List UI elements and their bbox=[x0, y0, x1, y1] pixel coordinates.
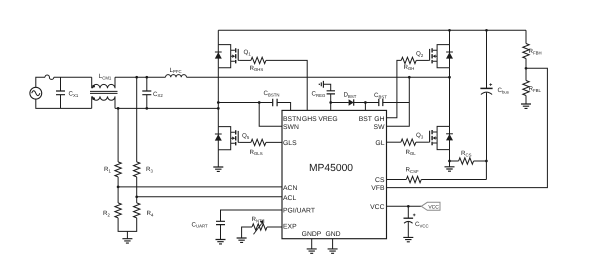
wire L_PFC to fast-leg switch node bbox=[187, 76, 450, 78]
svg-text:Cbus: Cbus bbox=[498, 87, 509, 94]
diode D_BST bbox=[331, 92, 366, 106]
ground Q3 source bbox=[445, 167, 455, 171]
svg-text:RNTC: RNTC bbox=[252, 216, 265, 223]
svg-text:Q1: Q1 bbox=[244, 49, 252, 56]
AC source V1 bbox=[30, 87, 42, 99]
svg-text:BST: BST bbox=[359, 116, 372, 123]
capacitor C_REG bbox=[312, 84, 336, 98]
ground GND bbox=[328, 249, 338, 253]
capacitor C_UART bbox=[192, 221, 226, 239]
svg-text:RCS: RCS bbox=[461, 150, 472, 157]
wire BST drop bbox=[364, 103, 366, 111]
node: N line to slow leg bbox=[217, 107, 220, 110]
svg-text:GH: GH bbox=[374, 116, 384, 123]
resistor R_GH bbox=[401, 57, 416, 71]
svg-text:Q2: Q2 bbox=[416, 51, 424, 58]
wire R_GHS to GHS pin bbox=[266, 60, 307, 110]
svg-text:ACN: ACN bbox=[283, 185, 297, 192]
wire Q3 source node bbox=[449, 150, 451, 167]
svg-text:VCC: VCC bbox=[370, 204, 384, 211]
ground C_UART bbox=[216, 240, 226, 244]
wire R_GL to Q3 gate bbox=[416, 141, 428, 143]
node: R3 divider tap on L line bbox=[135, 76, 138, 79]
ground divider bbox=[122, 239, 132, 243]
svg-text:SW: SW bbox=[374, 124, 386, 131]
fuse F1 bbox=[45, 75, 54, 79]
node BSTN rail tap bbox=[217, 101, 220, 104]
wire VCC pin to tag bbox=[387, 205, 422, 207]
svg-text:GNDP: GNDP bbox=[302, 231, 322, 238]
ground C_VCC bbox=[403, 237, 413, 241]
wire GND to ground bbox=[332, 239, 334, 249]
wire Q2 source to Q3 drain bbox=[449, 68, 451, 127]
wire divider bottoms joined bbox=[118, 218, 137, 239]
svg-text:MP45000: MP45000 bbox=[309, 163, 353, 174]
node C_VCC tap bbox=[407, 205, 410, 208]
svg-text:VREG: VREG bbox=[318, 116, 337, 123]
node BST tap bbox=[364, 101, 367, 104]
svg-text:RFBH: RFBH bbox=[529, 48, 542, 55]
common-mode choke L_CM1 bbox=[90, 73, 118, 108]
svg-text:CVCC: CVCC bbox=[415, 221, 429, 228]
node: Q2/Q3 midpoint bbox=[448, 76, 451, 79]
capacitor C_bus bbox=[480, 30, 509, 179]
resistor R_CS bbox=[450, 150, 487, 164]
wire VFB sense bbox=[387, 68, 548, 187]
svg-text:CUART: CUART bbox=[192, 221, 208, 228]
wire R_GLS to GLS pin bbox=[266, 141, 282, 143]
svg-text:PGI/UART: PGI/UART bbox=[283, 208, 315, 215]
transistor Q3 bbox=[416, 126, 453, 149]
svg-text:DBST: DBST bbox=[344, 92, 357, 99]
wire R_FBL to ground bbox=[525, 96, 527, 105]
node: C_X2 bottom bbox=[145, 107, 148, 110]
transistor Q1 bbox=[215, 45, 252, 68]
wire bottom N line choke to slow leg bbox=[115, 107, 218, 109]
capacitor C_VCC bbox=[404, 206, 429, 237]
resistor R_GHS bbox=[240, 57, 266, 72]
svg-text:CBST: CBST bbox=[374, 92, 387, 99]
wire Q5 source to ground bbox=[217, 150, 219, 167]
wire R3 to R4 bbox=[136, 177, 138, 203]
wire SWN pin riser bbox=[259, 103, 282, 127]
svg-text:CREG: CREG bbox=[312, 90, 326, 97]
node: C_X2 top bbox=[145, 76, 148, 79]
resistor R_CSF bbox=[387, 167, 487, 183]
ground Q5 bbox=[213, 167, 223, 171]
svg-text:CX1: CX1 bbox=[69, 91, 79, 98]
svg-text:VFB: VFB bbox=[371, 185, 385, 192]
svg-text:R2: R2 bbox=[103, 210, 110, 217]
wire GH riser bbox=[387, 60, 402, 117]
capacitor C_X1 bbox=[56, 77, 79, 108]
wire R_GH to Q2 gate bbox=[416, 59, 428, 61]
ground GNDP bbox=[307, 249, 317, 253]
node VREG rail bbox=[329, 101, 332, 104]
node: SW riser tap bbox=[408, 76, 411, 79]
wire PGI/UART to C_UART bbox=[221, 210, 283, 221]
node R_CS right on return rail bbox=[485, 160, 488, 163]
inductor L_PFC bbox=[166, 67, 187, 77]
svg-text:CX2: CX2 bbox=[153, 91, 163, 98]
resistor R_FBH bbox=[523, 30, 542, 58]
resistor R3 bbox=[134, 77, 154, 177]
svg-text:EXP: EXP bbox=[283, 223, 297, 230]
wire VREG riser bbox=[330, 94, 332, 110]
svg-text:RGLS: RGLS bbox=[250, 149, 263, 156]
transistor Q2 bbox=[416, 45, 453, 68]
svg-text:GLS: GLS bbox=[283, 140, 297, 147]
resistor R_GLS bbox=[240, 139, 266, 156]
transistor Q5 bbox=[215, 127, 250, 150]
svg-text:CBSTN: CBSTN bbox=[264, 90, 280, 97]
wire rail to Q1 drain bbox=[217, 30, 219, 44]
wire Q1 source to Q5 drain bbox=[217, 68, 219, 127]
resistor R_GL bbox=[387, 139, 417, 156]
node Q3 source / R_CS left bbox=[448, 160, 451, 163]
svg-text:VCC: VCC bbox=[428, 204, 439, 210]
capacitor C_BST bbox=[365, 92, 409, 106]
svg-text:RGL: RGL bbox=[406, 149, 417, 156]
wire GNDP to ground bbox=[311, 239, 313, 249]
svg-text:GL: GL bbox=[375, 140, 384, 147]
node FB divider bbox=[525, 67, 528, 70]
capacitor C_BSTN bbox=[264, 90, 291, 110]
ground R_NTC bbox=[237, 238, 247, 242]
wire BSTN rail bbox=[218, 102, 272, 104]
wire top HV rail bbox=[218, 29, 526, 31]
node SWN riser tap bbox=[258, 101, 261, 104]
resistor R1 bbox=[104, 108, 121, 176]
svg-text:R3: R3 bbox=[146, 166, 153, 173]
IC U1 MP45000 bbox=[282, 110, 387, 238]
wire rail to Q2 drain bbox=[449, 30, 451, 44]
net tag VCC bbox=[421, 202, 440, 210]
svg-text:LCM1: LCM1 bbox=[99, 73, 112, 80]
resistor R2 bbox=[103, 203, 121, 218]
resistor R4 bbox=[134, 203, 154, 218]
wire ACL to IC bbox=[137, 196, 282, 198]
wire choke to L_PFC (L line) bbox=[115, 76, 166, 78]
svg-text:RCSF: RCSF bbox=[406, 167, 419, 174]
wire fuse to choke bbox=[54, 76, 92, 78]
svg-text:Q5: Q5 bbox=[242, 132, 250, 139]
resistor R_FBL bbox=[523, 81, 542, 96]
node C_bus on rail bbox=[485, 29, 488, 32]
svg-text:Q3: Q3 bbox=[416, 132, 424, 139]
node Q2 drain on rail bbox=[448, 29, 451, 32]
svg-text:GND: GND bbox=[325, 231, 340, 238]
wire R1 to R2 bbox=[117, 177, 119, 203]
svg-text:LPFC: LPFC bbox=[170, 67, 182, 74]
node: R1 divider tap on N line bbox=[117, 107, 120, 110]
wire R_FBH to R_FBL bbox=[525, 59, 527, 81]
svg-text:CS: CS bbox=[375, 177, 385, 184]
svg-text:SWN: SWN bbox=[283, 124, 299, 131]
svg-text:ACL: ACL bbox=[283, 195, 296, 202]
svg-text:R4: R4 bbox=[147, 210, 154, 217]
ground C_REG (sideways) bbox=[319, 81, 323, 88]
svg-text:RGHS: RGHS bbox=[250, 65, 264, 72]
svg-text:GHS: GHS bbox=[302, 116, 317, 123]
wire ACN to IC bbox=[118, 186, 282, 188]
svg-text:BSTN: BSTN bbox=[283, 116, 301, 123]
ground R_FBL bbox=[521, 104, 531, 108]
node ACL tap bbox=[135, 195, 138, 198]
svg-text:RFBL: RFBL bbox=[529, 86, 542, 93]
wire AC to fuse and C_X1 bbox=[36, 77, 92, 108]
resistor R_NTC bbox=[242, 216, 282, 238]
svg-text:RGH: RGH bbox=[404, 64, 415, 71]
capacitor C_X2 bbox=[142, 77, 163, 108]
wire SW riser bbox=[387, 77, 410, 126]
node ACN tap bbox=[117, 186, 120, 189]
svg-text:R1: R1 bbox=[104, 166, 111, 173]
